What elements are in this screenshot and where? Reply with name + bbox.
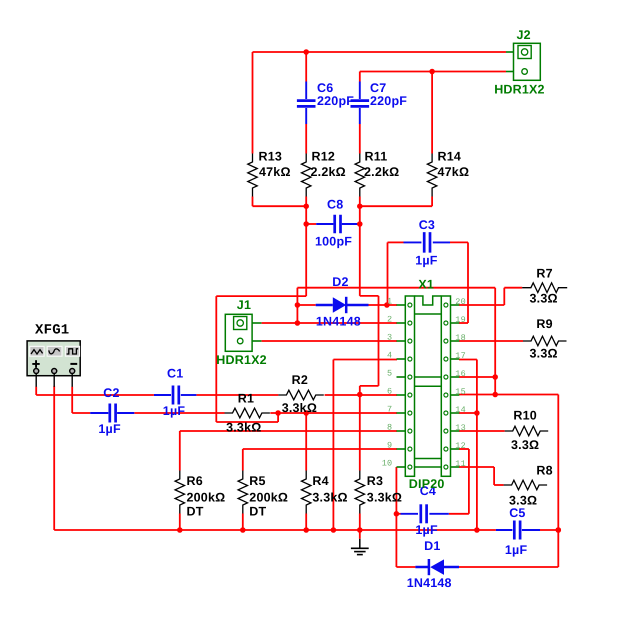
svg-text:R10: R10 <box>513 409 537 423</box>
svg-text:12: 12 <box>455 441 466 451</box>
svg-text:DT: DT <box>249 505 266 519</box>
svg-text:4: 4 <box>387 350 392 360</box>
svg-text:R13: R13 <box>259 150 283 164</box>
svg-text:3.3kΩ: 3.3kΩ <box>367 490 402 504</box>
svg-text:C3: C3 <box>419 218 435 232</box>
svg-text:C1: C1 <box>167 367 183 381</box>
svg-text:1µF: 1µF <box>163 404 186 418</box>
svg-text:R2: R2 <box>292 373 308 387</box>
svg-text:XFG1: XFG1 <box>35 322 69 338</box>
svg-text:R14: R14 <box>438 150 462 164</box>
svg-text:1N4148: 1N4148 <box>407 576 452 590</box>
svg-text:R12: R12 <box>312 150 336 164</box>
svg-text:6: 6 <box>387 386 392 396</box>
svg-text:2.2kΩ: 2.2kΩ <box>311 165 346 179</box>
svg-text:200kΩ: 200kΩ <box>249 490 288 504</box>
svg-text:3.3Ω: 3.3Ω <box>511 438 539 452</box>
svg-text:R8: R8 <box>536 464 552 478</box>
svg-text:3.3kΩ: 3.3kΩ <box>226 421 261 435</box>
svg-text:20: 20 <box>455 297 466 307</box>
svg-text:7: 7 <box>387 404 392 414</box>
svg-text:220pF: 220pF <box>317 94 354 108</box>
svg-text:1: 1 <box>387 296 392 306</box>
svg-text:R4: R4 <box>312 474 328 488</box>
svg-text:14: 14 <box>455 405 466 415</box>
svg-text:47kΩ: 47kΩ <box>438 165 470 179</box>
svg-text:R7: R7 <box>536 266 552 280</box>
svg-text:1µF: 1µF <box>505 543 528 557</box>
svg-text:C8: C8 <box>327 197 343 211</box>
svg-text:D2: D2 <box>332 275 348 289</box>
svg-text:8: 8 <box>387 422 392 432</box>
svg-text:9: 9 <box>387 440 392 450</box>
svg-text:R1: R1 <box>238 391 254 405</box>
svg-text:J1: J1 <box>237 298 251 312</box>
svg-text:47kΩ: 47kΩ <box>259 165 291 179</box>
svg-text:R11: R11 <box>365 150 388 164</box>
svg-text:HDR1X2: HDR1X2 <box>494 83 545 97</box>
svg-text:1µF: 1µF <box>415 254 438 268</box>
svg-text:11: 11 <box>455 459 466 469</box>
svg-text:2: 2 <box>387 314 392 324</box>
svg-text:16: 16 <box>455 369 466 379</box>
svg-text:3.3Ω: 3.3Ω <box>530 347 558 361</box>
svg-text:10: 10 <box>382 458 393 468</box>
svg-text:2.2kΩ: 2.2kΩ <box>364 165 399 179</box>
svg-text:18: 18 <box>455 333 466 343</box>
svg-text:DT: DT <box>187 505 204 519</box>
svg-text:C7: C7 <box>370 81 386 95</box>
svg-text:3.3kΩ: 3.3kΩ <box>282 401 317 415</box>
svg-text:R5: R5 <box>249 474 265 488</box>
svg-text:3.3Ω: 3.3Ω <box>509 493 537 507</box>
svg-text:1N4148: 1N4148 <box>316 314 361 328</box>
svg-text:C5: C5 <box>509 506 525 520</box>
svg-text:R3: R3 <box>367 474 383 488</box>
svg-text:3.3kΩ: 3.3kΩ <box>312 490 347 504</box>
svg-text:1µF: 1µF <box>98 422 121 436</box>
svg-text:5: 5 <box>387 368 392 378</box>
svg-text:R9: R9 <box>536 317 552 331</box>
svg-text:200kΩ: 200kΩ <box>187 490 226 504</box>
svg-text:15: 15 <box>455 387 466 397</box>
svg-text:DIP20: DIP20 <box>409 477 445 491</box>
svg-text:220pF: 220pF <box>370 94 407 108</box>
svg-text:100pF: 100pF <box>315 234 352 248</box>
svg-text:1µF: 1µF <box>415 523 438 537</box>
svg-text:C2: C2 <box>103 386 119 400</box>
svg-text:X1: X1 <box>418 278 434 292</box>
svg-text:C6: C6 <box>317 81 333 95</box>
svg-text:R6: R6 <box>187 474 203 488</box>
svg-text:3: 3 <box>387 332 392 342</box>
svg-text:19: 19 <box>455 315 466 325</box>
svg-text:J2: J2 <box>517 28 531 42</box>
svg-text:3.3Ω: 3.3Ω <box>530 292 558 306</box>
svg-text:17: 17 <box>455 351 466 361</box>
svg-text:13: 13 <box>455 423 466 433</box>
svg-text:D1: D1 <box>424 539 440 553</box>
svg-text:HDR1X2: HDR1X2 <box>216 353 267 367</box>
